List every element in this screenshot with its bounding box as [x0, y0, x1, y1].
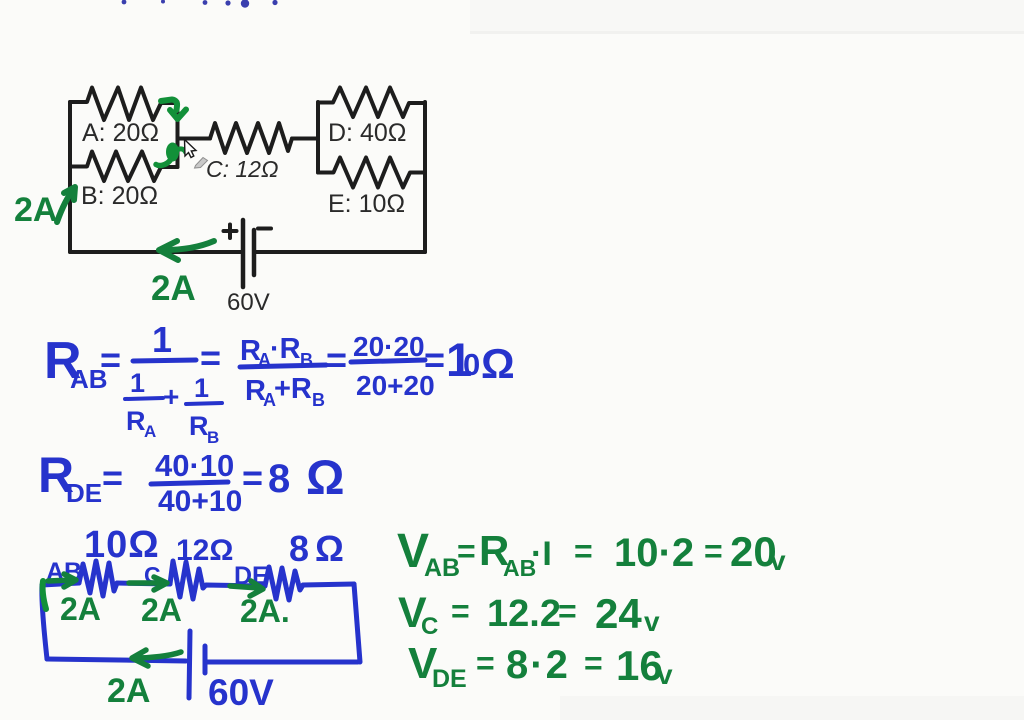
- svg-text:+: +: [163, 381, 179, 412]
- svg-text:12Ω: 12Ω: [176, 534, 233, 567]
- svg-text:2A.: 2A.: [240, 593, 290, 629]
- annotation arrow AB: [48, 574, 76, 587]
- svg-text:20·20: 20·20: [353, 331, 425, 362]
- svg-text:=: =: [704, 533, 723, 569]
- wire bottom left: [70, 250, 241, 254]
- svg-text:AB: AB: [424, 554, 460, 582]
- svg-text:Ω: Ω: [306, 452, 344, 505]
- resistor AB 10ohm: [79, 561, 117, 596]
- svg-text:40·10: 40·10: [155, 448, 234, 483]
- svg-text:=: =: [476, 645, 495, 681]
- annotation bottom current arrow: [159, 241, 214, 260]
- svg-text:8·2: 8·2: [506, 643, 570, 687]
- svg-text:B: B: [207, 428, 219, 447]
- svg-text:C: C: [421, 613, 438, 640]
- svg-text:16: 16: [616, 642, 663, 689]
- svg-text:60V: 60V: [208, 672, 274, 713]
- svg-text:·R: ·R: [270, 333, 301, 365]
- annotation arrow DE: [230, 581, 263, 596]
- svg-text:B: 20Ω: B: 20Ω: [81, 182, 158, 210]
- faint band top right: [470, 0, 1024, 32]
- svg-text:=: =: [558, 593, 577, 629]
- svg-text:2A: 2A: [151, 269, 196, 308]
- svg-text:2A: 2A: [14, 191, 57, 229]
- frac bar 1/RB: [186, 403, 222, 404]
- resistor D: [318, 88, 425, 118]
- frac bar 1/RA: [125, 398, 163, 399]
- svg-text:2A: 2A: [60, 591, 101, 627]
- resistor A: [70, 88, 178, 121]
- svg-text:v: v: [657, 659, 673, 690]
- svg-text:8Ω: 8Ω: [289, 528, 350, 569]
- wire A-B junction vertical: [176, 102, 180, 167]
- wire junction to C: [178, 137, 211, 141]
- battery V1 60V: [243, 220, 254, 287]
- svg-text:=: =: [457, 533, 476, 569]
- resistor C: [210, 123, 292, 153]
- svg-text:v: v: [644, 606, 660, 637]
- resistor DE 8ohm: [265, 567, 303, 600]
- svg-text:=: =: [100, 339, 121, 380]
- wire left vertical: [42, 585, 47, 659]
- wire C to DE: [292, 137, 318, 141]
- resistor C 12ohm: [170, 561, 203, 599]
- faint band bottom right: [560, 696, 1024, 720]
- svg-text:10·2: 10·2: [614, 531, 694, 575]
- svg-text:2A: 2A: [141, 592, 182, 628]
- resistor E: [318, 158, 425, 188]
- svg-text:10Ω: 10Ω: [84, 524, 160, 566]
- frac bar 40 10: [151, 482, 228, 484]
- svg-text:·I: ·I: [531, 535, 552, 573]
- battery V2 60V: [189, 631, 205, 698]
- ink dots top edge (cut-off writing): [122, 0, 278, 8]
- svg-text:A: 20Ω: A: 20Ω: [82, 119, 159, 147]
- svg-text:=: =: [200, 337, 221, 378]
- svg-text:=: =: [451, 593, 470, 629]
- value label 10 ohm: [46, 524, 350, 713]
- mouse cursor: [185, 140, 208, 169]
- battery minus sign: [258, 227, 271, 231]
- svg-text:24: 24: [595, 590, 642, 637]
- wire AB to C: [117, 583, 170, 584]
- svg-text:8: 8: [268, 457, 290, 501]
- svg-text:E: 10Ω: E: 10Ω: [328, 190, 405, 218]
- frac bar main: [133, 360, 196, 361]
- svg-text:=: =: [242, 457, 263, 498]
- svg-text:12.2: 12.2: [487, 593, 561, 635]
- annotation tick at corner AB: [43, 581, 46, 609]
- svg-text:2A: 2A: [107, 672, 150, 710]
- wire top left: [42, 583, 79, 585]
- frac bar 2020: [351, 360, 425, 362]
- svg-text:DE: DE: [432, 665, 467, 693]
- svg-text:+R: +R: [274, 373, 312, 405]
- svg-text:20+20: 20+20: [356, 370, 435, 401]
- svg-text:=: =: [584, 645, 603, 681]
- svg-text:B: B: [312, 390, 325, 410]
- svg-text:0: 0: [463, 347, 480, 382]
- svg-text:R: R: [189, 411, 209, 441]
- wire right vertical: [354, 584, 360, 662]
- svg-text:A: A: [144, 422, 156, 441]
- svg-text:=: =: [102, 457, 123, 498]
- annotation scribble at node: [156, 143, 186, 166]
- svg-text:60V: 60V: [227, 289, 270, 316]
- wire bottom left: [47, 659, 186, 661]
- svg-text:1: 1: [152, 319, 172, 360]
- wire top right: [303, 584, 354, 585]
- svg-text:D: 40Ω: D: 40Ω: [328, 119, 406, 147]
- svg-text:C: 12Ω: C: 12Ω: [206, 156, 278, 182]
- wire right vertical: [423, 102, 427, 252]
- svg-text:40+10: 40+10: [158, 485, 242, 518]
- svg-text:v: v: [770, 545, 786, 576]
- svg-text:=: =: [326, 339, 347, 380]
- wire bottom right: [256, 250, 425, 254]
- svg-text:DE: DE: [66, 478, 102, 508]
- svg-text:=: =: [574, 533, 593, 569]
- wire DE left vertical: [316, 102, 320, 173]
- svg-text:Ω: Ω: [481, 340, 515, 387]
- annotation arrow C: [129, 577, 167, 590]
- annotation check arrow at node: [161, 100, 186, 120]
- svg-text:1: 1: [130, 368, 145, 398]
- resistor B: [70, 152, 178, 182]
- wire bottom right: [205, 660, 358, 665]
- svg-text:R: R: [126, 406, 146, 436]
- annotation bottom arrow blue circuit: [132, 650, 181, 666]
- wire left vertical: [68, 102, 72, 252]
- annotation current arrow up-left: [57, 187, 75, 222]
- frac bar RARB: [240, 365, 326, 367]
- battery plus sign: [224, 225, 237, 239]
- wire C to DE: [203, 585, 265, 588]
